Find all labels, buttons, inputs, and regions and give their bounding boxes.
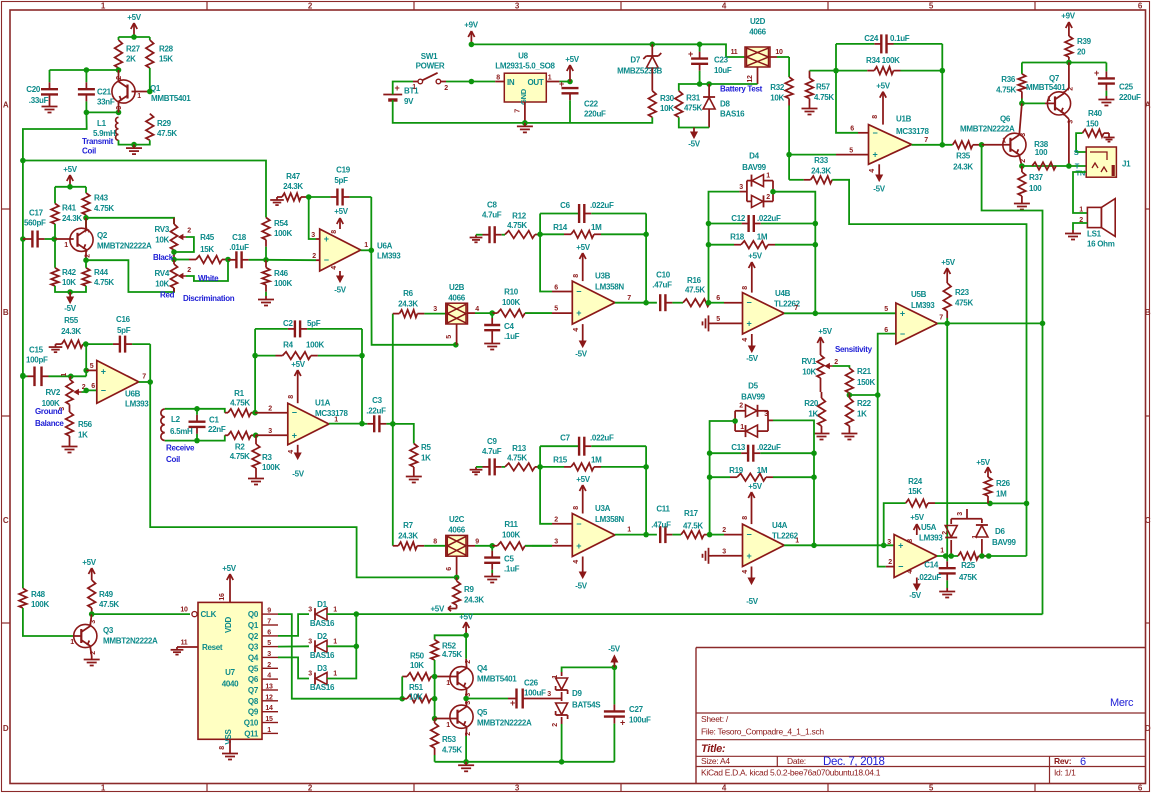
junction [89, 611, 95, 617]
wire [392, 314, 394, 546]
svg-text:2: 2 [1068, 87, 1075, 91]
wire Q4 to D3 [278, 657, 309, 678]
junction [463, 633, 469, 639]
svg-text:U2C: U2C [449, 515, 465, 524]
svg-text:33nF: 33nF [97, 98, 115, 107]
svg-text:3: 3 [1068, 120, 1075, 124]
svg-text:R51: R51 [409, 683, 424, 692]
diode D8 body [703, 97, 745, 119]
U1A pin leads [255, 413, 288, 436]
wire [119, 36, 150, 38]
transistor Q4 MMBT5401 [450, 664, 517, 690]
svg-text:4.75K: 4.75K [94, 278, 114, 287]
svg-text:Date:: Date: [787, 756, 806, 766]
junction [706, 221, 712, 227]
svg-text:1: 1 [548, 75, 552, 82]
ground under C4 [484, 340, 500, 350]
resistor R52 [431, 640, 463, 660]
svg-text:+: + [898, 540, 903, 550]
svg-text:IN: IN [507, 78, 515, 87]
svg-text:Coil: Coil [82, 147, 96, 156]
resistor R36 [996, 74, 1026, 104]
resistor R29 [146, 114, 177, 141]
svg-text:D2: D2 [317, 632, 327, 641]
capacitor C14 [917, 556, 955, 588]
junction [847, 392, 853, 398]
power symbol +5V Q4 [459, 613, 474, 636]
wire [65, 375, 86, 377]
resistor R33 [789, 156, 832, 184]
junction [67, 289, 73, 295]
wire [784, 312, 896, 314]
svg-text:C7: C7 [560, 434, 570, 443]
R21 lead [848, 393, 850, 395]
svg-text:4.75K: 4.75K [230, 452, 250, 461]
svg-text:BAV99: BAV99 [992, 538, 1017, 547]
resistor R21 [846, 367, 876, 393]
svg-text:-5V: -5V [688, 140, 701, 149]
svg-text:+5V: +5V [334, 207, 349, 216]
svg-text:1: 1 [412, 84, 416, 91]
ground at U4A pin3 [703, 548, 713, 564]
wire [119, 140, 150, 144]
svg-text:D8: D8 [720, 100, 730, 109]
svg-text:3: 3 [957, 512, 964, 516]
svg-text:5pF: 5pF [334, 176, 348, 185]
svg-text:1: 1 [766, 173, 770, 180]
svg-text:15: 15 [265, 716, 273, 723]
resistor R23 [943, 283, 973, 323]
svg-text:24.3K: 24.3K [398, 300, 418, 309]
capacitor C27 [604, 700, 651, 762]
svg-text:−: − [900, 329, 905, 339]
svg-text:11: 11 [731, 49, 738, 56]
junction [786, 152, 792, 158]
transistor Q5 MMBT2N2222A [450, 705, 532, 729]
resistor R41 [51, 204, 82, 224]
svg-text:L2: L2 [171, 415, 181, 424]
resistor R14 [540, 223, 646, 238]
svg-text:C4: C4 [504, 322, 514, 331]
D5 top diode [746, 405, 758, 417]
svg-text:6: 6 [267, 629, 271, 636]
svg-text:TN: TN [1076, 169, 1085, 178]
svg-text:R50: R50 [410, 652, 425, 661]
svg-text:C12: C12 [731, 214, 746, 223]
svg-text:6: 6 [554, 285, 558, 292]
svg-text:VDD: VDD [224, 616, 233, 633]
junction [811, 474, 817, 480]
svg-text:-5V: -5V [292, 470, 305, 479]
svg-text:Red: Red [160, 291, 175, 300]
svg-text:R5: R5 [421, 443, 431, 452]
junction [83, 368, 89, 374]
capacitor C20 body [26, 70, 58, 105]
svg-text:3: 3 [116, 106, 123, 110]
svg-text:10K: 10K [155, 280, 169, 289]
svg-text:C22: C22 [584, 100, 599, 109]
D6 left diode [945, 526, 957, 538]
wire [789, 154, 836, 156]
svg-text:POWER: POWER [416, 62, 445, 71]
svg-text:RV1: RV1 [801, 357, 816, 366]
wire [165, 409, 225, 413]
capacitor C1 [189, 409, 226, 441]
power symbol +5V U6A [334, 207, 349, 229]
svg-text:R31: R31 [686, 94, 701, 103]
svg-text:C25: C25 [1119, 83, 1134, 92]
svg-text:R53: R53 [442, 735, 457, 744]
op-amp U6A [320, 229, 402, 271]
wire [86, 218, 174, 224]
junction [813, 242, 819, 248]
wire [393, 100, 653, 123]
wire [540, 446, 552, 524]
svg-text:−: − [576, 287, 581, 297]
RV2 leads [70, 376, 71, 412]
svg-text:R14: R14 [553, 223, 568, 232]
svg-text:R57: R57 [816, 83, 831, 92]
svg-text:3: 3 [311, 232, 315, 239]
svg-text:Q7: Q7 [1049, 74, 1060, 83]
svg-text:C20: C20 [26, 85, 41, 94]
wire [615, 534, 657, 536]
svg-text:B: B [1145, 308, 1151, 317]
op-amp U1B [869, 115, 930, 165]
wire [371, 250, 456, 344]
svg-text:24.3K: 24.3K [398, 532, 418, 541]
svg-text:15K: 15K [200, 245, 214, 254]
transistor Q1 MMBT5401 [112, 79, 191, 103]
svg-text:22nF: 22nF [208, 425, 226, 434]
wire [435, 635, 467, 639]
junction [67, 184, 73, 190]
svg-text:R36: R36 [1001, 75, 1016, 84]
resistor R56 [66, 412, 93, 443]
svg-text:−: − [898, 562, 903, 572]
svg-text:3: 3 [308, 639, 312, 646]
wire [878, 395, 886, 567]
capacitor C4 [484, 313, 519, 341]
junction [83, 257, 89, 263]
svg-text:MMBT5401: MMBT5401 [151, 94, 191, 103]
ground under R22 [841, 430, 857, 440]
svg-text:R10: R10 [504, 288, 519, 297]
svg-text:C3: C3 [372, 396, 382, 405]
power symbol +5V R26 [976, 458, 991, 477]
RV4 wiper wire [186, 260, 228, 282]
wire -5V node down to C27 [613, 667, 615, 700]
svg-text:24.3K: 24.3K [61, 327, 81, 336]
capacitor C10 [652, 271, 683, 312]
ground under C5 [484, 573, 500, 583]
svg-text:Receive: Receive [166, 444, 195, 453]
resistor R55 [56, 316, 83, 348]
svg-text:2: 2 [465, 732, 472, 736]
R9 to +5V arrow [448, 577, 457, 611]
junction [940, 68, 946, 74]
svg-text:+5V: +5V [127, 13, 142, 22]
svg-text:3: 3 [547, 691, 551, 698]
svg-text:100K: 100K [274, 229, 292, 238]
svg-text:4: 4 [267, 673, 271, 680]
svg-text:100uF: 100uF [524, 689, 546, 698]
svg-text:1M: 1M [591, 223, 602, 232]
svg-text:+5V: +5V [876, 82, 891, 91]
wire [645, 214, 647, 303]
svg-text:24.3K: 24.3K [811, 167, 831, 176]
svg-text:.022uF: .022uF [590, 201, 614, 210]
svg-text:D7: D7 [630, 56, 640, 65]
svg-text:8: 8 [742, 286, 749, 290]
svg-text:1: 1 [940, 548, 944, 555]
svg-text:0.1uF: 0.1uF [890, 34, 910, 43]
svg-text:Id: 1/1: Id: 1/1 [1054, 768, 1076, 778]
ground at R55 [49, 344, 63, 352]
junction [194, 406, 200, 412]
power symbol +9V [464, 21, 479, 45]
svg-text:R29: R29 [157, 119, 172, 128]
svg-text:7: 7 [924, 137, 928, 144]
resistor R20 [804, 392, 825, 430]
svg-text:3: 3 [268, 428, 272, 435]
svg-text:5: 5 [267, 640, 271, 647]
svg-text:+5V: +5V [910, 513, 925, 522]
junction [354, 611, 360, 617]
wire [773, 192, 815, 314]
svg-text:LM393: LM393 [125, 400, 149, 409]
svg-text:Q9: Q9 [248, 708, 259, 717]
wire [938, 322, 948, 324]
wire [912, 144, 953, 146]
svg-text:5pF: 5pF [307, 319, 321, 328]
svg-text:U8: U8 [518, 52, 528, 61]
svg-text:MC33178: MC33178 [315, 409, 348, 418]
power symbol +5V U5A [910, 513, 925, 535]
svg-text:47.5K: 47.5K [683, 522, 703, 531]
junction [453, 342, 459, 348]
junction [84, 110, 90, 116]
svg-text:.1uF: .1uF [504, 565, 520, 574]
svg-text:C21: C21 [97, 88, 112, 97]
capacitor C17 body [23, 209, 54, 248]
svg-text:12: 12 [265, 694, 273, 701]
U3A pin leads [552, 524, 572, 546]
svg-text:MMBT2N2222A: MMBT2N2222A [97, 242, 152, 251]
svg-text:3: 3 [722, 548, 726, 555]
svg-text:D3: D3 [317, 664, 327, 673]
capacitor C9 [476, 437, 505, 475]
U5A pin2 lead [886, 566, 894, 568]
svg-text:+5V: +5V [748, 252, 763, 261]
svg-text:Dec. 7, 2018: Dec. 7, 2018 [823, 756, 885, 768]
svg-text:4.75K: 4.75K [442, 746, 462, 755]
svg-text:-5V: -5V [746, 354, 759, 363]
svg-text:2: 2 [722, 527, 726, 534]
svg-text:1: 1 [446, 680, 450, 687]
wire [393, 82, 413, 95]
power symbol +9V R39 [1061, 12, 1076, 37]
svg-text:15K: 15K [159, 55, 173, 64]
speaker LS1 [1087, 199, 1115, 249]
svg-text:8: 8 [433, 539, 437, 546]
wire R40 to jack S [1076, 133, 1086, 152]
junction [20, 374, 26, 380]
svg-text:+: + [324, 234, 329, 244]
junction [194, 438, 200, 444]
svg-text:−: − [101, 385, 106, 395]
svg-text:-5V: -5V [746, 597, 759, 606]
svg-text:R55: R55 [64, 316, 79, 325]
ground at R40 bars [1103, 135, 1114, 142]
resistor R4 [255, 341, 362, 360]
svg-text:8: 8 [331, 230, 338, 234]
resistor R46 [262, 260, 292, 296]
power symbol -5V U4B [746, 334, 759, 363]
svg-text:10K: 10K [62, 278, 76, 287]
svg-text:2: 2 [85, 254, 92, 258]
svg-text:RV2: RV2 [45, 388, 60, 397]
capacitor C19 [309, 166, 372, 206]
power symbol -5V U6A [334, 271, 347, 295]
wire [54, 239, 56, 268]
svg-text:C11: C11 [656, 505, 670, 514]
svg-text:R46: R46 [274, 269, 289, 278]
wire [679, 84, 758, 91]
junction [68, 374, 74, 380]
resistor R32 [770, 77, 793, 155]
svg-text:2: 2 [1020, 159, 1027, 163]
svg-text:6: 6 [716, 295, 720, 302]
svg-text:C19: C19 [336, 166, 351, 175]
svg-text:Title:: Title: [701, 743, 726, 755]
capacitor C23 [688, 44, 732, 84]
svg-text:7: 7 [267, 619, 271, 626]
svg-text:Q10: Q10 [244, 719, 259, 728]
svg-text:C10: C10 [656, 271, 671, 280]
resistor R5 [410, 443, 431, 473]
resistor R28 [146, 40, 174, 68]
junction [390, 421, 396, 427]
svg-text:1: 1 [61, 373, 68, 377]
resistor R48 [19, 588, 49, 609]
svg-text:5: 5 [849, 147, 853, 154]
capacitor C22 [559, 79, 606, 123]
svg-text:Ground: Ground [35, 407, 62, 416]
svg-text:1M: 1M [757, 466, 768, 475]
svg-text:4.75K: 4.75K [507, 453, 527, 462]
junction [225, 257, 231, 263]
svg-text:2: 2 [739, 403, 743, 410]
svg-text:C16: C16 [116, 315, 131, 324]
junction [84, 67, 90, 73]
svg-text:2: 2 [888, 559, 892, 566]
svg-text:4: 4 [907, 570, 914, 574]
wire D1 output [327, 613, 356, 615]
svg-text:5: 5 [554, 306, 558, 313]
wire [361, 329, 363, 424]
junction [147, 89, 153, 95]
ground under U8 [517, 123, 533, 132]
wire [788, 155, 790, 180]
junction [131, 142, 137, 148]
svg-text:+5V: +5V [976, 458, 991, 467]
svg-text:.47uF: .47uF [652, 281, 672, 290]
svg-text:47.5K: 47.5K [685, 286, 705, 295]
svg-text:U4B: U4B [775, 289, 791, 298]
Q6 pin leads [982, 103, 1022, 166]
junction [1024, 501, 1030, 507]
capacitor C21 body [78, 70, 115, 112]
svg-text:R24: R24 [908, 477, 923, 486]
svg-text:24.3K: 24.3K [62, 214, 82, 223]
wire [83, 343, 86, 345]
wire to U3A pin3 [525, 545, 552, 547]
zener diode D7 body [617, 53, 662, 76]
power symbol -5V U3B [575, 324, 588, 358]
svg-text:C26: C26 [524, 679, 539, 688]
svg-text:220uF: 220uF [1119, 93, 1141, 102]
svg-text:10uF: 10uF [714, 66, 732, 75]
svg-text:Reset: Reset [202, 643, 223, 652]
svg-text:-5V: -5V [575, 582, 588, 591]
svg-text:100K: 100K [502, 298, 520, 307]
svg-text:4040: 4040 [222, 680, 239, 689]
svg-text:-5V: -5V [575, 350, 588, 359]
svg-text:+5V: +5V [63, 165, 78, 174]
svg-text:+5V: +5V [576, 475, 591, 484]
svg-text:+: + [747, 318, 752, 328]
svg-text:R40: R40 [1088, 109, 1103, 118]
svg-text:OUT: OUT [528, 78, 544, 87]
svg-text:1K: 1K [421, 454, 431, 463]
svg-text:-5V: -5V [909, 591, 922, 600]
dual diode D9 BAT54S [562, 672, 602, 762]
U7 VDD stem [219, 590, 230, 602]
junction [643, 532, 649, 538]
svg-text:Q11: Q11 [244, 729, 259, 738]
svg-text:R6: R6 [403, 289, 413, 298]
wire [86, 260, 174, 292]
svg-text:100: 100 [1029, 184, 1042, 193]
svg-text:LM393: LM393 [919, 534, 943, 543]
svg-text:C15: C15 [29, 346, 44, 355]
svg-text:R56: R56 [78, 420, 93, 429]
battery BT1 [383, 83, 419, 106]
bottom rail Q4Q5 block [435, 761, 615, 763]
svg-text:-5V: -5V [64, 304, 77, 313]
svg-text:R7: R7 [403, 521, 413, 530]
svg-text:C: C [1145, 516, 1151, 525]
junction [833, 68, 839, 74]
wire [85, 187, 87, 193]
svg-text:1: 1 [740, 424, 744, 431]
svg-text:LM393: LM393 [377, 252, 401, 261]
connector J1 jack [1074, 147, 1131, 178]
wire [85, 260, 87, 268]
junction [1066, 163, 1072, 169]
svg-text:4.7uF: 4.7uF [482, 211, 502, 220]
svg-text:GND: GND [519, 88, 528, 105]
wire [118, 37, 120, 40]
svg-text:Sensitivity: Sensitivity [835, 345, 873, 354]
svg-text:4066: 4066 [749, 28, 766, 37]
svg-text:MMBT5401: MMBT5401 [1026, 83, 1066, 92]
svg-text:LM393: LM393 [911, 301, 935, 310]
svg-text:R21: R21 [857, 367, 872, 376]
D5 bottom diode [746, 425, 758, 437]
svg-text:+: + [900, 308, 905, 318]
